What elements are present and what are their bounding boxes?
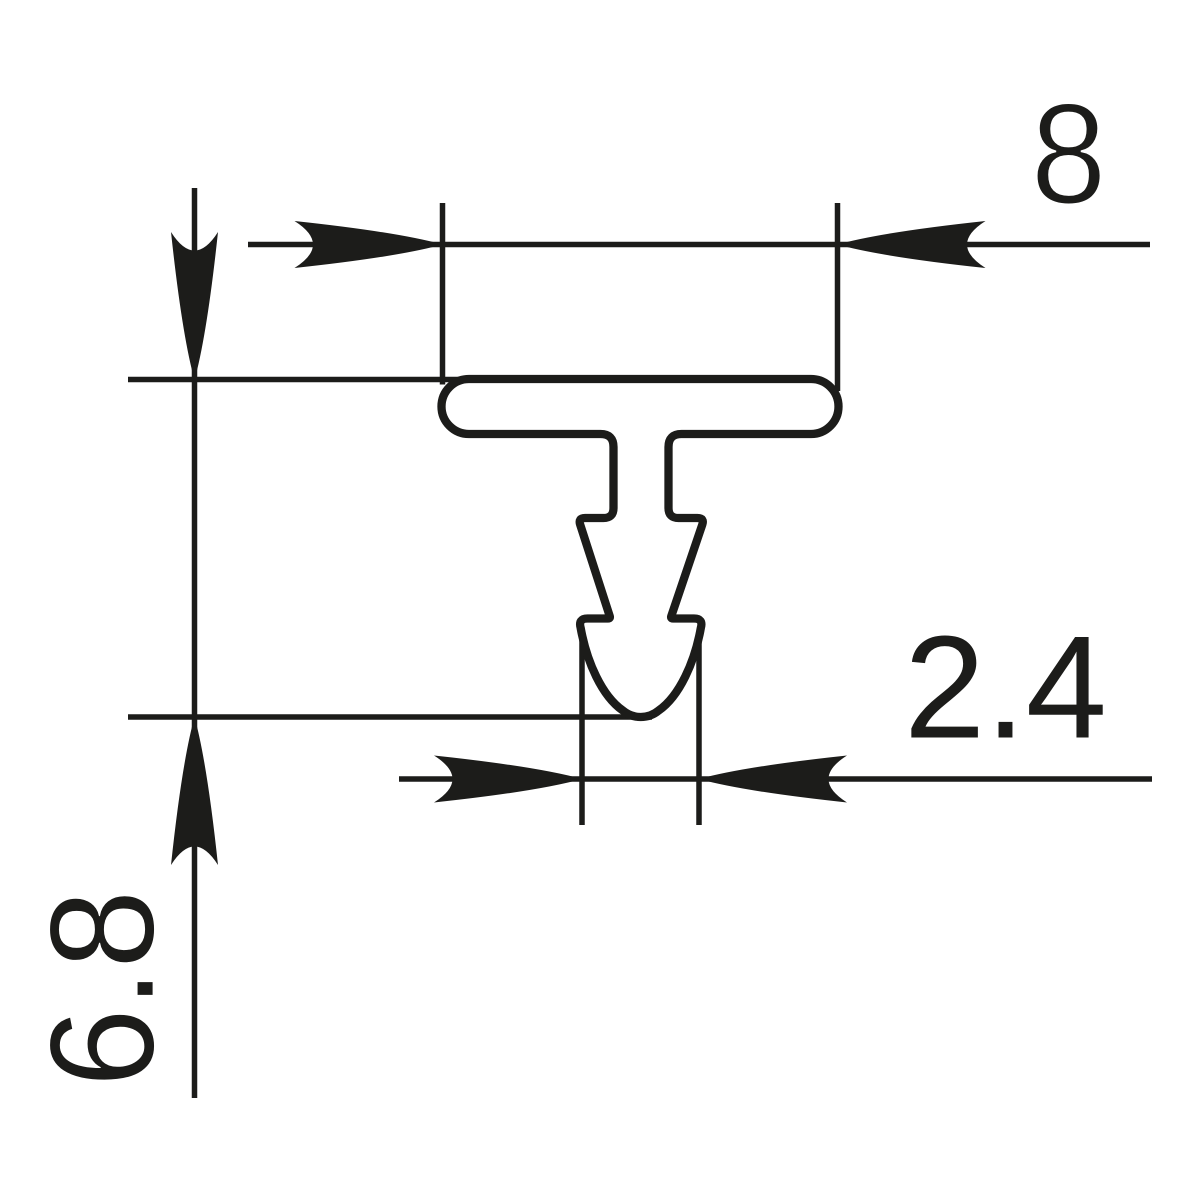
svg-text:8: 8 — [1031, 74, 1107, 234]
svg-text:6.8: 6.8 — [19, 890, 184, 1088]
svg-text:2.4: 2.4 — [904, 606, 1107, 769]
